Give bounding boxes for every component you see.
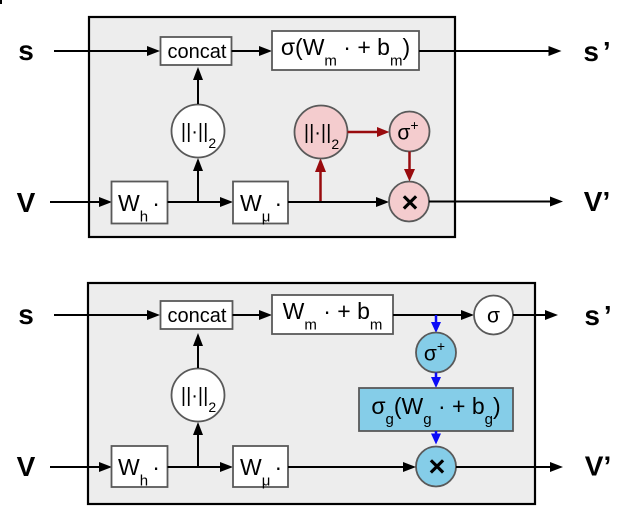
block concat (top): [161, 37, 232, 65]
svg-text:concat: concat: [168, 305, 227, 327]
block pink multiply circle: [389, 182, 429, 222]
wire sigma circle to s' output: [513, 310, 558, 320]
svg-text:V’: V’: [584, 186, 610, 217]
svg-text:×: ×: [429, 451, 446, 483]
wire gate block to multiply: [431, 431, 441, 445]
wire concat to sigma-block: [232, 46, 273, 56]
wire Wh to Wmu: [168, 197, 234, 207]
wire Wmu to multiply circle: [288, 197, 389, 207]
wire multiply to V' output: [429, 197, 563, 207]
svg-text:V: V: [17, 187, 36, 218]
block pink norm circle ||.||2: [295, 106, 348, 159]
wire norm circle to concat: [193, 67, 203, 104]
wire V input arrow into Wh: [50, 197, 112, 207]
block: top diagram enclosure: [89, 17, 455, 237]
corner mark: [0, 0, 2, 4]
block Wm . + bm: [272, 295, 393, 334]
wire norm circle to concat (bottom): [193, 333, 203, 368]
svg-text:concat: concat: [168, 41, 227, 63]
block gate sigma_g(Wg . + bg): [359, 388, 513, 431]
block pink sigma-plus circle: [390, 112, 430, 152]
wire junction to norm circle: [193, 158, 203, 202]
wire pink norm to sigma-plus: [348, 127, 390, 137]
svg-text:V: V: [17, 451, 36, 482]
block blue multiply circle: [416, 447, 456, 487]
wire s input arrow into concat: [54, 46, 160, 56]
block sigma(Wm . + bm): [272, 31, 419, 70]
wire Wh to Wmu (bottom): [168, 462, 234, 472]
wire blue drop to sigma-plus: [431, 315, 441, 333]
wire blue multiply to V' output: [456, 462, 563, 472]
block Wh (bottom): [112, 446, 168, 490]
svg-text:s’: s’: [583, 36, 610, 67]
svg-text:s’: s’: [584, 300, 611, 331]
wire red junction up to pink norm: [315, 158, 326, 201]
wire sigma-plus to gate block: [431, 373, 441, 389]
block Wmu (bottom): [233, 446, 288, 490]
wire Wmu to blue multiply: [288, 462, 416, 472]
wire Wm to sigma circle: [393, 310, 474, 320]
block blue sigma-plus circle: [416, 333, 456, 373]
wire sigma-plus to multiply: [404, 152, 415, 182]
svg-text:×: ×: [402, 187, 419, 219]
block norm circle bottom ||.||2: [172, 369, 225, 422]
block Wmu (top): [233, 182, 288, 226]
wire junction to norm circle (bottom): [193, 422, 203, 467]
wire concat to Wm block: [233, 310, 273, 320]
block norm circle top ||.||2: [172, 105, 225, 158]
block Wh (top): [112, 182, 168, 226]
wire sigma-block to s' output: [419, 46, 562, 56]
wire s input arrow into concat (bottom): [54, 310, 160, 320]
block: bottom diagram enclosure: [88, 283, 535, 504]
svg-text:σ: σ: [487, 305, 500, 328]
svg-text:s: s: [18, 35, 34, 66]
block sigma circle (bottom): [474, 296, 513, 335]
svg-text:s: s: [18, 299, 34, 330]
svg-text:V’: V’: [585, 451, 611, 482]
wire V input arrow into Wh (bottom): [50, 462, 112, 472]
block concat (bottom): [161, 301, 233, 329]
